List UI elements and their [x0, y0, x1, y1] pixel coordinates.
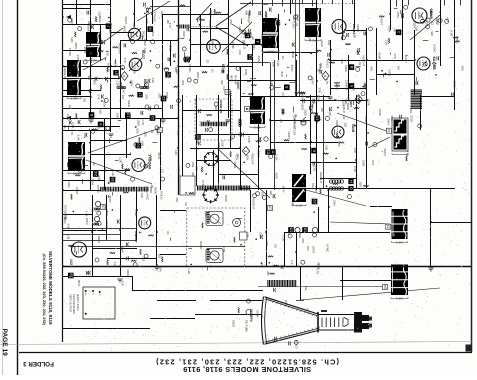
short wire stub: [269, 47, 271, 48]
svg-text:680: 680: [337, 141, 341, 146]
svg-text:33K: 33K: [415, 26, 419, 31]
short wire stub: [108, 195, 110, 198]
svg-text:680: 680: [140, 141, 144, 146]
callout line to photo 3: [88, 128, 160, 153]
resistor R72: [140, 249, 141, 255]
capacitor C6: [90, 25, 92, 29]
junction dot: [255, 238, 257, 240]
wire H sync: [285, 232, 390, 234]
svg-text:TRANSFORMER: TRANSFORMER: [72, 294, 76, 314]
capacitor C15: [117, 75, 119, 79]
svg-text:150V: 150V: [105, 209, 109, 216]
terminal circle: [144, 164, 148, 168]
terminal circle: [294, 340, 298, 344]
terminal circle: [341, 36, 345, 40]
svg-text:27K: 27K: [144, 94, 148, 99]
svg-text:.22: .22: [431, 21, 435, 26]
wire V e8: [182, 95, 184, 190]
svg-text:1.2K: 1.2K: [314, 186, 318, 192]
svg-text:E: E: [312, 149, 317, 152]
short wire stub: [142, 36, 144, 41]
junction dot: [147, 11, 149, 13]
resistor R33: [316, 50, 321, 51]
wire V e1: [76, 0, 78, 24]
svg-text:.001: .001: [191, 162, 195, 168]
resistor R2: [90, 58, 91, 64]
sound if coil bar: [179, 25, 181, 29]
short wire stub: [108, 21, 111, 23]
short wire stub: [411, 106, 413, 108]
svg-text:25: 25: [110, 177, 115, 182]
svg-text:270K: 270K: [91, 178, 95, 185]
resistor R32: [334, 82, 339, 83]
wire H e32: [157, 300, 196, 302]
svg-text:1M: 1M: [304, 286, 308, 291]
resistor R12: [227, 49, 228, 55]
tuner box top: [228, 62, 270, 64]
svg-text:17: 17: [137, 93, 142, 97]
terminal circle: [155, 126, 159, 130]
svg-text:VERT: VERT: [124, 16, 128, 24]
svg-text:22: 22: [312, 199, 317, 204]
svg-text:.0047: .0047: [312, 246, 316, 254]
resistor R11: [202, 31, 208, 32]
svg-text:1500: 1500: [143, 39, 147, 46]
linearity coil: [239, 119, 241, 121]
resistor R69: [110, 252, 115, 253]
resistor R50: [76, 159, 81, 160]
svg-text:21: 21: [265, 150, 270, 154]
resistor R59: [333, 183, 338, 184]
terminal circle: [253, 194, 257, 198]
short wire stub: [332, 99, 334, 101]
svg-text:12K: 12K: [287, 230, 291, 235]
terminal circle: [78, 27, 82, 31]
svg-text:6.8K: 6.8K: [98, 108, 102, 114]
noise coil 1: [117, 86, 119, 88]
svg-text:.001: .001: [409, 108, 413, 114]
terminal circle: [182, 47, 186, 51]
svg-text:10K: 10K: [116, 112, 120, 117]
short wire stub: [370, 79, 375, 81]
scan speckle noise: [322, 8, 325, 11]
svg-text:AGC: AGC: [320, 40, 324, 47]
capacitor C16: [123, 43, 125, 47]
resistor R3: [107, 67, 108, 72]
capacitor C55: [365, 142, 367, 146]
capacitor C54: [206, 120, 208, 124]
waveform callout square 26: [136, 143, 142, 149]
svg-text:HOLD: HOLD: [436, 17, 440, 26]
wire H e8: [228, 80, 296, 82]
terminal circle: [269, 154, 273, 158]
wire V e19: [104, 118, 106, 190]
svg-text:AGC: AGC: [152, 16, 156, 23]
svg-text:1500: 1500: [244, 69, 248, 76]
short wire stub: [293, 107, 295, 113]
svg-text:265V: 265V: [396, 11, 400, 18]
capacitor C18: [221, 69, 223, 73]
svg-text:HOLD: HOLD: [169, 43, 173, 52]
capacitor C30: [327, 53, 329, 57]
resistor R64: [339, 142, 344, 143]
svg-text:12K: 12K: [167, 73, 171, 78]
svg-text:VERT: VERT: [310, 77, 314, 85]
wire V e24: [270, 95, 272, 155]
svg-text:150V: 150V: [66, 114, 70, 121]
ground: [154, 266, 159, 268]
capacitor C68: [288, 341, 290, 345]
discriminator arrow lower: [216, 27, 248, 46]
resistor R30: [248, 93, 254, 94]
fuse diamond E: [121, 72, 128, 81]
wire H e29: [160, 210, 186, 212]
svg-text:.047: .047: [73, 93, 77, 99]
resistor R29: [295, 92, 300, 93]
svg-text:150V: 150V: [308, 34, 312, 41]
svg-text:.001: .001: [158, 93, 162, 99]
wire V e25: [310, 95, 312, 174]
resistor R61: [363, 185, 368, 186]
capacitor C12: [100, 95, 102, 99]
svg-text:(Ch. 528.51220, 222, 223, 230,: (Ch. 528.51220, 222, 223, 230, 231, 232): [155, 358, 339, 367]
svg-text:SYNC: SYNC: [188, 64, 192, 73]
wire V m8: [316, 0, 318, 190]
wire V mid extra: [323, 95, 325, 188]
terminal circle: [83, 60, 87, 64]
waveform photo W5 (video): [305, 8, 321, 22]
svg-text:.22: .22: [305, 307, 309, 312]
wire H e17: [182, 110, 240, 112]
short wire stub: [101, 42, 103, 44]
resistor R76: [234, 237, 235, 243]
short wire stub: [64, 22, 66, 24]
wire V e29: [136, 190, 138, 240]
svg-text:1K: 1K: [281, 56, 285, 60]
svg-text:2.2: 2.2: [160, 169, 164, 174]
svg-text:MEG: MEG: [97, 236, 101, 244]
terminal circle: [156, 64, 160, 68]
svg-text:1.2K: 1.2K: [115, 80, 119, 86]
svg-text:2.2: 2.2: [237, 132, 241, 137]
short wire stub: [118, 120, 121, 122]
resistor R60: [323, 153, 328, 154]
capacitor C43: [140, 111, 142, 115]
svg-text:SYNC: SYNC: [68, 48, 72, 57]
junction dot: [259, 146, 261, 148]
svg-text:5%: 5%: [317, 326, 321, 331]
short wire stub: [89, 128, 91, 130]
waveform callout square 16: [302, 227, 308, 233]
svg-text:33K: 33K: [238, 50, 242, 55]
terminal circle: [106, 126, 110, 130]
waveform callout square D: [270, 149, 276, 155]
svg-text:.22: .22: [119, 246, 123, 251]
contrast pot: [301, 120, 306, 125]
svg-text:MEG: MEG: [452, 81, 456, 89]
wire V col2: [299, 0, 301, 97]
wire V e31: [266, 190, 268, 266]
short wire stub: [83, 165, 88, 167]
callout line to photo 10: [258, 286, 385, 288]
short wire stub: [190, 100, 192, 103]
resistor R36: [345, 43, 350, 44]
wire H e3: [63, 50, 91, 52]
resistor R1: [95, 17, 96, 22]
capacitor C5: [102, 40, 104, 44]
terminal circle: [187, 78, 191, 82]
junction dot: [268, 262, 270, 264]
resistor R71: [148, 235, 154, 236]
svg-text:.05: .05: [243, 33, 247, 38]
discriminator arrow upper: [216, 2, 251, 26]
capacitor C48: [272, 194, 274, 198]
terminal circle: [68, 18, 72, 22]
main B+ bus emphasis: [178, 0, 180, 195]
shield box dashed: [195, 99, 232, 140]
svg-text:250V: 250V: [455, 37, 459, 44]
wire V m4: [228, 0, 230, 118]
capacitor C27: [346, 33, 348, 37]
resistor R19: [120, 83, 121, 88]
callout line crt: [300, 288, 440, 300]
svg-text:3.3K: 3.3K: [335, 84, 339, 90]
ground: [249, 98, 254, 100]
tube V10 6AW8A video: [332, 20, 346, 34]
resistor R67: [310, 112, 315, 113]
svg-text:2.2: 2.2: [222, 86, 226, 91]
svg-text:4.7K: 4.7K: [141, 119, 145, 125]
capacitor C33: [302, 99, 304, 103]
callout line to photo 1: [101, 28, 123, 44]
svg-text:100K: 100K: [130, 79, 134, 86]
svg-text:.047: .047: [306, 245, 310, 251]
svg-text:5-2W: 5-2W: [254, 126, 261, 130]
short wire stub: [115, 160, 119, 162]
svg-text:120: 120: [269, 190, 273, 195]
junction dot: [362, 86, 364, 88]
svg-text:265V: 265V: [300, 93, 304, 100]
svg-text:265V: 265V: [74, 42, 78, 49]
short wire stub: [130, 152, 132, 154]
svg-text:6.8K: 6.8K: [208, 20, 212, 26]
wire V e20: [126, 118, 128, 158]
svg-text:(Ch. 528.51220, 222, 223, 230,: (Ch. 528.51220, 222, 223, 230, 231, 232): [42, 254, 47, 326]
svg-text:250V: 250V: [196, 72, 200, 79]
terminal circle: [231, 134, 235, 138]
svg-text:26: 26: [136, 143, 141, 148]
short wire stub: [383, 74, 385, 78]
waveform photo W4 (sync): [262, 18, 279, 32]
terminal circle: [214, 102, 218, 106]
terminal circle: [104, 98, 108, 102]
svg-text:27K: 27K: [317, 87, 321, 92]
deflection yoke assembly: [187, 208, 245, 266]
resistor R68: [354, 107, 359, 108]
junction dot: [354, 125, 356, 127]
wire V e9: [230, 95, 232, 148]
wire H e5: [63, 90, 101, 92]
wire H e1: [63, 4, 111, 6]
svg-text:270K: 270K: [388, 69, 392, 76]
wire H e4: [63, 78, 120, 80]
junction dot: [335, 158, 337, 160]
svg-text:33K: 33K: [140, 193, 144, 198]
short wire stub: [290, 82, 295, 84]
short wire stub: [356, 66, 361, 68]
svg-text:1500: 1500: [361, 160, 365, 167]
short wire stub: [263, 4, 267, 6]
svg-text:VERT: VERT: [383, 148, 387, 156]
svg-text:17DQ6A: 17DQ6A: [148, 154, 153, 170]
waveform callout square 22: [312, 199, 318, 205]
waveform callout square E: [311, 148, 317, 154]
wire H band2: [63, 130, 111, 132]
svg-text:6AQ5A: 6AQ5A: [432, 57, 437, 70]
terminal circle: [426, 25, 430, 29]
test point square 18: [101, 205, 106, 210]
wire V low1: [120, 195, 122, 277]
terminal circle: [325, 116, 329, 120]
wire H e13: [63, 126, 120, 128]
resistor R57: [189, 192, 195, 193]
capacitor C61: [87, 271, 89, 275]
capacitor C22: [248, 29, 250, 33]
wire H e27: [92, 248, 137, 250]
terminal circle: [183, 57, 187, 61]
terminal circle: [194, 79, 198, 83]
short wire stub: [214, 190, 218, 192]
tuner box right: [270, 63, 272, 111]
wire V e15: [376, 28, 378, 95]
svg-text:680: 680: [70, 18, 74, 23]
svg-text:5%: 5%: [341, 33, 345, 38]
short wire stub: [247, 81, 251, 83]
svg-text:1K: 1K: [260, 314, 264, 318]
wire V m9: [330, 40, 332, 95]
terminal circle: [97, 221, 101, 225]
svg-text:.01: .01: [77, 89, 81, 94]
peaking coil: [282, 109, 284, 111]
ground: [160, 119, 165, 121]
convergence circle 1: [295, 227, 300, 232]
resistor R4: [92, 129, 97, 130]
resistor R58: [300, 121, 305, 122]
short wire stub: [68, 125, 70, 131]
resistor R23: [278, 20, 279, 25]
svg-text:.05: .05: [83, 98, 87, 103]
wire V e30: [250, 190, 252, 232]
junction dot bus1: [62, 16, 64, 18]
capacitor C52: [205, 128, 207, 132]
resistor R22: [180, 5, 186, 6]
wire H low2: [133, 290, 263, 292]
svg-text:470: 470: [445, 17, 449, 22]
svg-text:47K: 47K: [405, 151, 409, 156]
waveform callout square 21b: [265, 149, 270, 154]
svg-text:VERT OUTPUT: VERT OUTPUT: [69, 294, 73, 313]
short wire stub: [338, 182, 341, 184]
svg-text:5%: 5%: [88, 51, 92, 56]
resistor R10: [216, 12, 222, 13]
svg-text:.0047: .0047: [182, 31, 186, 39]
junction dot: [289, 19, 291, 21]
wire V m11: [366, 28, 368, 188]
resistor R37: [358, 97, 359, 102]
short wire stub: [115, 164, 117, 166]
svg-text:270K: 270K: [74, 62, 78, 69]
wire V mid2: [162, 14, 164, 118]
wire H e33: [150, 318, 195, 320]
svg-text:12K: 12K: [385, 40, 389, 45]
terminal circle: [144, 254, 148, 258]
wire V low5: [318, 207, 320, 232]
wire V e10: [262, 0, 264, 66]
wire V b2: [110, 0, 112, 132]
svg-text:G: G: [91, 293, 93, 295]
resistor R62: [320, 188, 321, 194]
resistor R70: [68, 245, 73, 246]
fuse diamond H: [242, 147, 249, 156]
terminal circle: [294, 15, 298, 19]
resistor R82: [238, 308, 239, 313]
left margin rule: [17, 0, 19, 375]
resistor R42: [76, 113, 77, 118]
wire H e10: [346, 30, 366, 32]
svg-text:1.2K: 1.2K: [257, 151, 261, 157]
terminal circle: [91, 129, 95, 133]
svg-text:47K: 47K: [90, 207, 94, 212]
svg-text:AGC: AGC: [238, 26, 242, 33]
tube socket 2 top view: [205, 153, 218, 166]
svg-text:5-2W: 5-2W: [296, 204, 303, 208]
svg-text:680: 680: [260, 263, 264, 268]
svg-text:VERT: VERT: [75, 187, 79, 195]
wire V e32: [296, 232, 298, 266]
resistor R41: [454, 41, 459, 42]
svg-text:MEG: MEG: [123, 26, 127, 34]
svg-text:HOLD: HOLD: [325, 59, 329, 68]
short wire stub: [390, 53, 392, 55]
arrow diagonal t3: [222, 22, 252, 52]
wire V right3: [430, 188, 432, 266]
wire V t1: [134, 0, 136, 27]
terminal circle: [256, 192, 260, 196]
svg-text:150V: 150V: [102, 100, 106, 107]
svg-text:6BN8: 6BN8: [429, 9, 434, 20]
capacitor C37: [363, 84, 365, 88]
crt anode lead: [300, 296, 302, 300]
svg-text:W2: W2: [158, 254, 162, 259]
svg-text:5%: 5%: [278, 22, 282, 27]
svg-text:.01: .01: [166, 231, 170, 236]
junction dot: [285, 24, 287, 26]
terminal circle: [368, 27, 372, 31]
svg-text:12K: 12K: [70, 37, 74, 42]
svg-text:1M: 1M: [397, 66, 401, 71]
waveform callout square 12: [161, 96, 167, 102]
terminal circle: [423, 62, 427, 66]
svg-text:.0047: .0047: [404, 56, 408, 64]
test point square 14b: [387, 128, 392, 133]
svg-text:2.2: 2.2: [310, 102, 314, 107]
svg-text:37: 37: [113, 71, 118, 75]
junction dot: [133, 187, 135, 189]
svg-text:82K: 82K: [135, 128, 139, 133]
svg-text:10K: 10K: [341, 101, 345, 106]
arrowhead left bus2: [66, 15, 71, 19]
wire H m7: [190, 148, 240, 150]
